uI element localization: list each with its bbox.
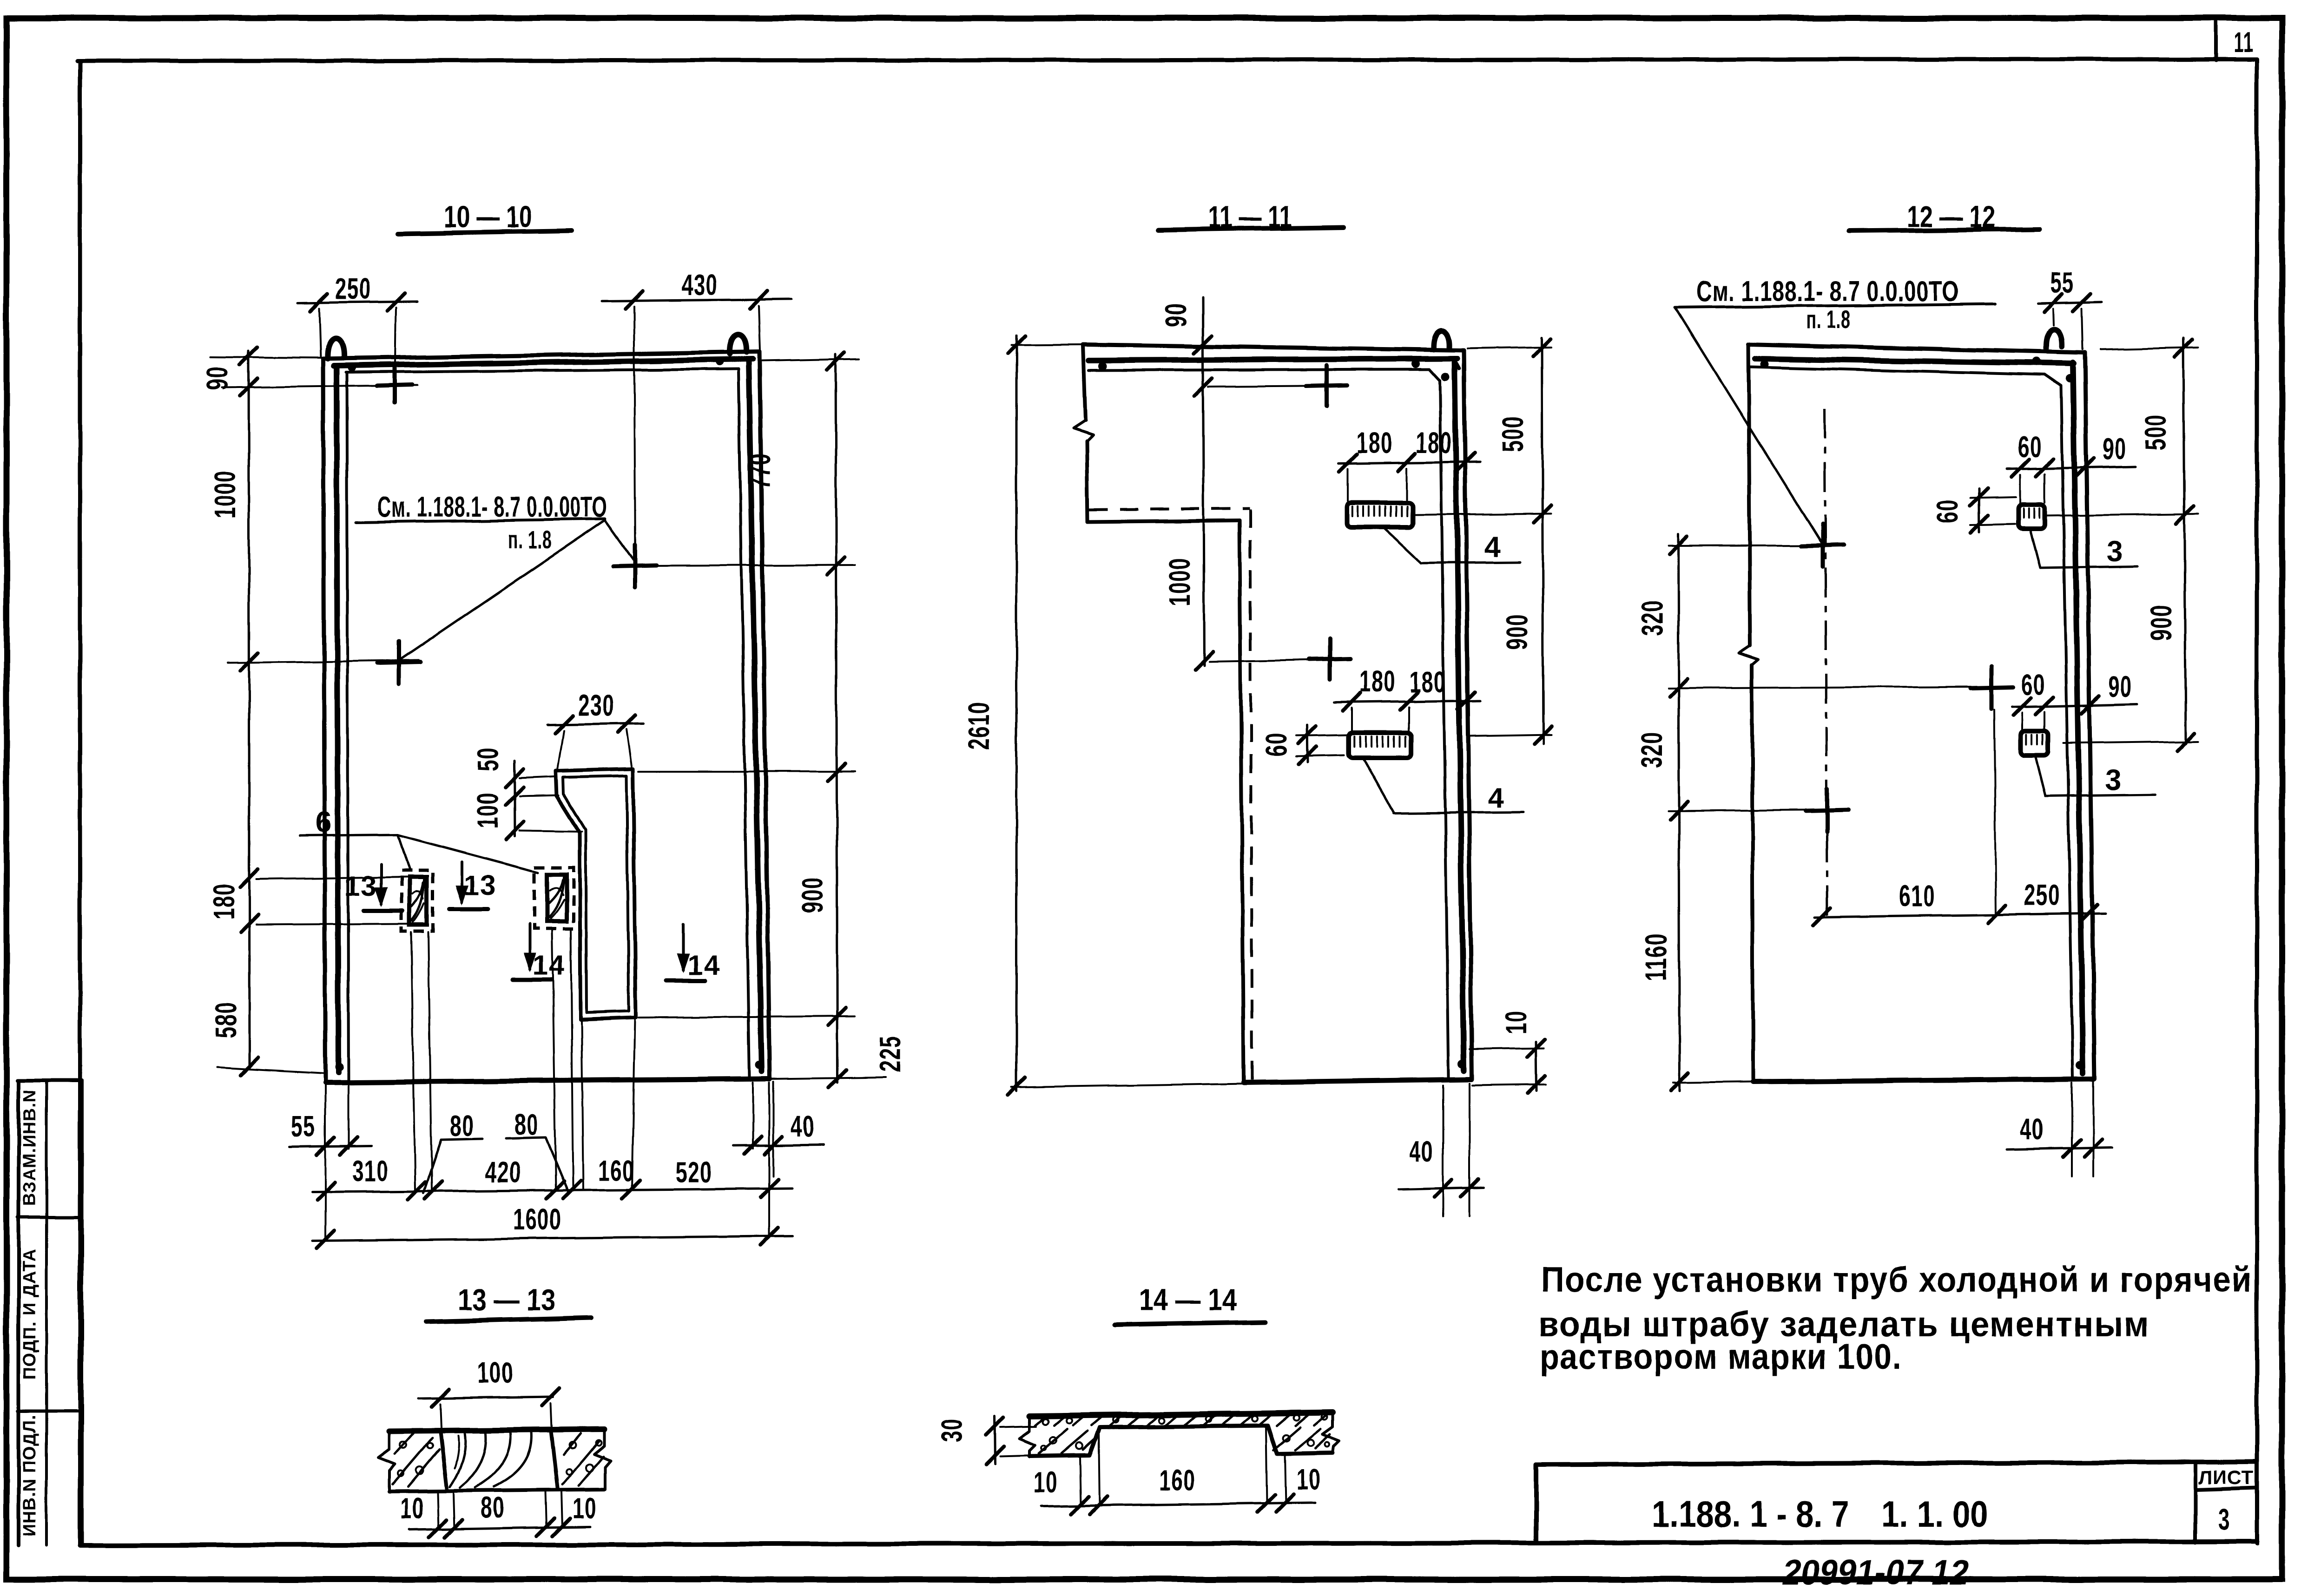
svg-text:55: 55: [291, 1110, 315, 1143]
svg-text:580: 580: [209, 1002, 243, 1038]
dim 230 channel: [547, 723, 644, 725]
svg-text:1160: 1160: [1639, 933, 1673, 981]
detail 13-13 slab bottom edge: [389, 1490, 604, 1491]
svg-text:500: 500: [1496, 416, 1530, 452]
left dim chain 10-10: [249, 351, 250, 1069]
svg-text:55: 55: [2050, 266, 2074, 299]
svg-text:320: 320: [1635, 732, 1668, 768]
lifting loop 11-11: [1434, 331, 1450, 349]
svg-text:180: 180: [1359, 664, 1396, 698]
sheet inner frame top line: [77, 59, 2257, 61]
dim 10 160 10 14-14: [1041, 1503, 1315, 1506]
dowel pin 2 11-11: [1349, 732, 1411, 758]
svg-text:100: 100: [471, 792, 504, 828]
svg-text:14: 14: [688, 950, 721, 981]
panel 10-10 bottom edge: [325, 1079, 770, 1083]
anchor cross A1: [377, 385, 412, 386]
svg-text:14 — 14: 14 — 14: [1139, 1282, 1237, 1317]
svg-text:30: 30: [935, 1418, 969, 1442]
panel 11-11 lower-left boundary: [1088, 520, 1240, 522]
svg-text:4: 4: [1484, 531, 1501, 563]
dim 2610 total height chain: [1015, 335, 1018, 1091]
svg-text:160: 160: [598, 1154, 634, 1188]
section 13-13 title underline: [426, 1318, 591, 1322]
svg-text:50: 50: [471, 747, 505, 771]
dim 55 top 12-12: [2038, 302, 2102, 303]
channel inner contour: [563, 776, 629, 1012]
wood plug block 1: [409, 877, 427, 925]
panel 11-11 right inner face: [1440, 381, 1449, 1077]
panel 11-11 right mesh bar: [1455, 359, 1464, 1071]
extension line panel bottom right: [771, 1077, 885, 1079]
section 12-12 title underline: [1849, 229, 2039, 231]
dim 580 left: [210, 357, 325, 358]
svg-text:40: 40: [2020, 1112, 2044, 1146]
svg-text:1600: 1600: [513, 1202, 561, 1236]
lifting loop left: [328, 338, 344, 359]
sheet inner frame left line: [78, 61, 82, 1544]
svg-text:610: 610: [1899, 879, 1935, 913]
stamp divider row 2: [18, 1410, 82, 1413]
label 6 with leader: [300, 835, 398, 836]
dim 100 13-13: [418, 1397, 553, 1399]
title block list divider: [2196, 1488, 2257, 1490]
svg-text:После установки труб холодно: После установки труб холодной и горячей: [1541, 1260, 2252, 1300]
svg-text:п. 1.8: п. 1.8: [508, 526, 552, 554]
svg-text:См. 1.188.1- 8.7 0.0.00ТО: См. 1.188.1- 8.7 0.0.00ТО: [377, 491, 607, 523]
svg-text:520: 520: [676, 1156, 712, 1189]
svg-text:230: 230: [578, 689, 614, 722]
svg-text:225: 225: [873, 1036, 907, 1072]
stamp divider row 1: [18, 1216, 82, 1219]
dim 60 vertical pin 1: [1979, 489, 1979, 532]
leader 3 pin 1: [2030, 529, 2040, 568]
dim 60 90 row 2 12-12: [2012, 704, 2137, 707]
panel 11-11 top mesh bar: [1089, 359, 1457, 361]
sheet inner frame bottom line: [80, 1542, 2257, 1545]
svg-text:180: 180: [1357, 426, 1393, 460]
dim chain 50 100 channel: [514, 761, 515, 836]
svg-text:40: 40: [791, 1110, 815, 1143]
svg-text:10: 10: [1297, 1463, 1321, 1496]
panel 11-11 dashed vertical: [1250, 509, 1252, 1080]
panel 11-11 bottom edge: [1244, 1079, 1471, 1083]
svg-text:10: 10: [1034, 1465, 1058, 1499]
leader 3 pin 2: [2035, 755, 2045, 796]
panel 10-10 top mesh bar: [334, 359, 753, 366]
anchor cross B1: [1801, 545, 1844, 546]
svg-text:2610: 2610: [962, 702, 996, 750]
section 11-11 title underline: [1159, 227, 1343, 230]
detail 13-13 slab top edge: [389, 1429, 604, 1431]
dim 40 bottom 11-11: [1399, 1188, 1483, 1189]
dim 250 top-left: [297, 302, 417, 303]
svg-text:60: 60: [2018, 430, 2042, 464]
dim 40 bottom right wall: [733, 1145, 824, 1146]
leader 80 first: [441, 1139, 482, 1140]
anchor cross 11-11 middle: [1309, 658, 1350, 659]
sheet inner frame right line: [2255, 59, 2259, 1543]
svg-text:90: 90: [2103, 432, 2127, 466]
svg-text:90: 90: [2108, 670, 2132, 703]
detail 14-14 concrete hatch band: [1035, 1415, 1048, 1425]
dim 1600 total width: [312, 1236, 792, 1241]
section mark 13 right: [461, 862, 463, 902]
reference note Sm 1.188.1-8.7 panel 10-10: [356, 519, 605, 522]
lifting loop right: [730, 334, 746, 354]
dim chain 500 900 right 12-12: [2183, 338, 2186, 743]
svg-text:ЛИСТ: ЛИСТ: [2199, 1466, 2254, 1488]
svg-text:ИНВ.N ПОДЛ.: ИНВ.N ПОДЛ.: [20, 1415, 40, 1537]
wall extension lines bottom: [324, 1085, 326, 1240]
svg-text:320: 320: [1635, 600, 1669, 636]
dowel pin 1 12-12: [2018, 505, 2045, 529]
detail 13-13 concrete hatch right: [562, 1440, 600, 1484]
dowel pin 1 11-11: [1347, 503, 1413, 527]
svg-text:3: 3: [2218, 1503, 2230, 1536]
panel 11-11 top inner face: [1089, 369, 1429, 370]
svg-text:250: 250: [2024, 878, 2060, 912]
svg-text:1. 1. 00: 1. 1. 00: [1881, 1493, 1988, 1535]
detail 13-13 wood plug right edge: [551, 1429, 558, 1490]
page number box top-right: [2214, 20, 2218, 60]
svg-text:См. 1.188.1- 8.7 0.0.00ТО: См. 1.188.1- 8.7 0.0.00ТО: [1696, 276, 1959, 308]
svg-text:1000: 1000: [1163, 558, 1196, 606]
panel 12-12 right inner face: [2061, 386, 2073, 1077]
section mark 13 left: [380, 864, 382, 904]
detail 13-13 concrete hatch left: [393, 1438, 432, 1484]
panel 12-12 top outer edge: [1748, 344, 2085, 353]
dowel pin 2 12-12: [2021, 731, 2048, 755]
title block top line: [1536, 1462, 2257, 1465]
panel 12-12 left break edge: [1748, 344, 1750, 646]
section 10-10 title underline: [398, 231, 572, 234]
detail 14-14 concrete hatch right block: [1273, 1427, 1300, 1451]
svg-text:420: 420: [485, 1156, 521, 1189]
svg-text:12 — 12: 12 — 12: [1907, 199, 1995, 234]
dim 60 90 row 1 12-12: [2007, 466, 2136, 469]
leader to anchor A2: [605, 520, 636, 563]
svg-text:60: 60: [2021, 668, 2045, 702]
panel 12-12 right outer edge: [2085, 353, 2095, 1079]
leader 4 pin 2: [1363, 758, 1393, 812]
title block left line: [1534, 1465, 1538, 1543]
svg-text:900: 900: [796, 877, 829, 913]
panel 11-11 hidden channel dashed boundary: [1089, 508, 1250, 510]
panel 10-10 top outer edge: [323, 352, 759, 359]
section mark 14 right: [682, 925, 685, 970]
svg-text:11: 11: [2234, 26, 2254, 59]
svg-text:160: 160: [1159, 1464, 1195, 1497]
dim 430 top: [602, 299, 791, 301]
panel 12-12 axis dash-dot line: [1825, 409, 1827, 922]
svg-text:770: 770: [743, 453, 777, 489]
detail 13-13 wood grain: [450, 1433, 465, 1487]
title block list column line: [2194, 1463, 2197, 1543]
svg-text:900: 900: [1500, 614, 1534, 650]
section mark 14 left: [528, 924, 531, 969]
svg-text:13: 13: [464, 870, 497, 901]
panel 10-10 right outer edge: [759, 352, 770, 1078]
svg-text:80: 80: [481, 1491, 505, 1524]
svg-text:900: 900: [2144, 604, 2178, 641]
detail 14-14 slab top edge: [1030, 1412, 1333, 1416]
leader 80 second: [506, 1137, 546, 1138]
svg-text:80: 80: [514, 1108, 539, 1141]
svg-text:430: 430: [682, 268, 718, 302]
leader to cross B1: [1675, 308, 1822, 544]
svg-text:40: 40: [1409, 1135, 1433, 1168]
panel 10-10 top inner face: [346, 369, 738, 372]
panel 10-10 left outer edge: [323, 359, 325, 1081]
panel 10-10 right inner face: [738, 369, 750, 1078]
svg-text:раствором марки 100.: раствором марки 100.: [1540, 1337, 1902, 1377]
right dim chain 10-10: [762, 359, 859, 361]
extension line to anchor A2: [647, 565, 855, 566]
svg-text:10: 10: [400, 1491, 424, 1525]
detail 13-13 left break: [378, 1431, 395, 1491]
dim 30 14-14: [995, 1416, 995, 1464]
panel 10-10 left inner face: [347, 372, 349, 1082]
panel 11-11 top outer edge: [1083, 345, 1464, 350]
wood plug block 2: [547, 874, 567, 921]
block extension lines to bottom chain: [411, 932, 415, 1190]
left stamp block frame: [17, 1080, 20, 1545]
panel 12-12 right mesh bar: [2073, 362, 2083, 1073]
svg-text:6: 6: [316, 806, 332, 838]
svg-text:14: 14: [533, 950, 566, 981]
dim 10 bottom right 11-11: [1536, 1042, 1536, 1091]
dim chain 500 900 right 11-11: [1542, 337, 1543, 743]
leader 4 pin 1: [1384, 528, 1421, 563]
svg-text:180: 180: [207, 883, 241, 920]
svg-text:60: 60: [1259, 732, 1293, 756]
dim 55 bottom left wall: [289, 1146, 372, 1147]
dim 60 pin 2 height: [1307, 725, 1308, 762]
svg-text:1000: 1000: [208, 470, 242, 519]
svg-text:1.188. 1 - 8. 7: 1.188. 1 - 8. 7: [1652, 1493, 1849, 1535]
svg-text:10: 10: [1499, 1010, 1533, 1034]
svg-text:180: 180: [1416, 426, 1452, 460]
panel 11-11 left break edge with zigzag: [1083, 345, 1086, 420]
detail 14-14 concrete hatch left block: [1039, 1429, 1067, 1453]
svg-text:90: 90: [200, 366, 234, 390]
svg-text:13 — 13: 13 — 13: [458, 1282, 555, 1317]
svg-text:ПОДП. И ДАТА: ПОДП. И ДАТА: [20, 1248, 40, 1380]
svg-text:10: 10: [573, 1491, 597, 1525]
detail 13-13 right break: [594, 1429, 611, 1490]
svg-text:90: 90: [1159, 303, 1193, 327]
wood plug block 2 dashed outline: [534, 867, 574, 928]
svg-text:60: 60: [1931, 499, 1964, 523]
svg-text:250: 250: [335, 272, 371, 305]
svg-text:3: 3: [2107, 536, 2123, 568]
wood plug block 1 dashed outline: [402, 871, 433, 931]
lifting loop 12-12: [2046, 329, 2062, 348]
stamp divider vertical: [45, 1080, 48, 1545]
svg-text:310: 310: [352, 1154, 389, 1188]
svg-text:80: 80: [450, 1109, 474, 1143]
anchor cross B right: [1970, 687, 2013, 688]
channel (shtraba) outer contour: [556, 769, 636, 1019]
panel 12-12 bottom edge: [1753, 1079, 2094, 1082]
anchor cross B2: [1806, 810, 1848, 811]
bottom dim chain 310 420 160 520: [312, 1189, 792, 1192]
anchor cross A2: [613, 565, 656, 566]
extension from cross B right to dim 610: [1994, 710, 1996, 914]
dim 610 250 12-12: [1815, 913, 2105, 917]
svg-text:10 — 10: 10 — 10: [444, 199, 532, 234]
dim chain 90 1000: [1203, 297, 1204, 665]
svg-text:11 — 11: 11 — 11: [1208, 199, 1292, 234]
svg-text:500: 500: [2139, 414, 2172, 450]
svg-text:3: 3: [2105, 764, 2122, 796]
detail 13-13 wood plug left edge: [440, 1430, 447, 1491]
panel 10-10 left mesh bar: [336, 366, 338, 1072]
leader to anchor A3: [400, 520, 605, 660]
svg-text:4: 4: [1488, 782, 1505, 814]
dim chain 320 320 1160: [1678, 534, 1680, 1091]
svg-text:п. 1.8: п. 1.8: [1807, 306, 1851, 334]
panel 10-10 right mesh bar: [749, 361, 762, 1071]
section 14-14 title underline: [1114, 1322, 1265, 1325]
extension line channel top: [639, 770, 855, 772]
svg-text:20991-07 12: 20991-07 12: [1780, 1553, 1972, 1592]
detail 14-14 bottom profile with recess: [1030, 1425, 1333, 1456]
detail 14-14 left break: [1020, 1416, 1035, 1456]
svg-text:180: 180: [1410, 665, 1446, 699]
anchor cross A3: [377, 662, 420, 663]
panel 12-12 top inner face: [1749, 367, 2045, 374]
anchor cross 11-11 top: [1306, 385, 1347, 386]
detail 14-14 right break: [1323, 1412, 1339, 1453]
panel 12-12 top mesh bar: [1755, 359, 2074, 363]
dim 40 bottom 12-12: [2007, 1148, 2112, 1149]
svg-text:13: 13: [344, 871, 377, 902]
svg-text:100: 100: [477, 1356, 514, 1389]
reference note Sm 1.188.1-8.7 panel 12-12: [1675, 304, 1996, 308]
svg-text:ВЗАМ.ИНВ.N: ВЗАМ.ИНВ.N: [20, 1090, 40, 1206]
panel 11-11 right outer edge: [1464, 350, 1472, 1078]
extension line channel bottom: [639, 1016, 855, 1018]
dim 180 180 row 1: [1338, 462, 1480, 464]
dim 180 180 row 2: [1334, 701, 1480, 703]
dim 10 80 10 13-13: [409, 1527, 590, 1530]
